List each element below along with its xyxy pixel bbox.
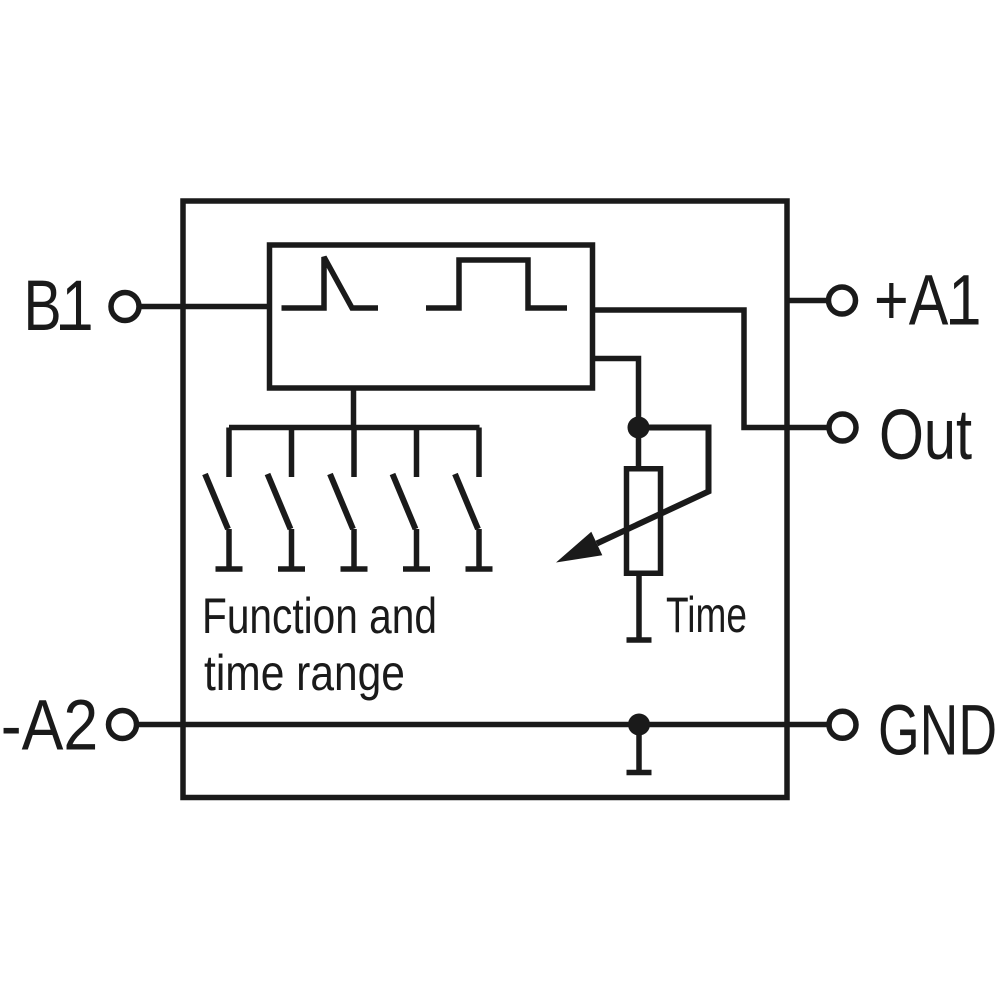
svg-text:Out: Out bbox=[879, 394, 972, 474]
svg-text:GND: GND bbox=[878, 691, 997, 770]
svg-text:+A1: +A1 bbox=[874, 261, 981, 340]
svg-text:time range: time range bbox=[204, 645, 405, 701]
svg-text:Time: Time bbox=[666, 588, 747, 644]
svg-text:B1: B1 bbox=[24, 266, 94, 345]
svg-text:Function and: Function and bbox=[202, 588, 437, 644]
svg-text:-A2: -A2 bbox=[1, 686, 98, 766]
